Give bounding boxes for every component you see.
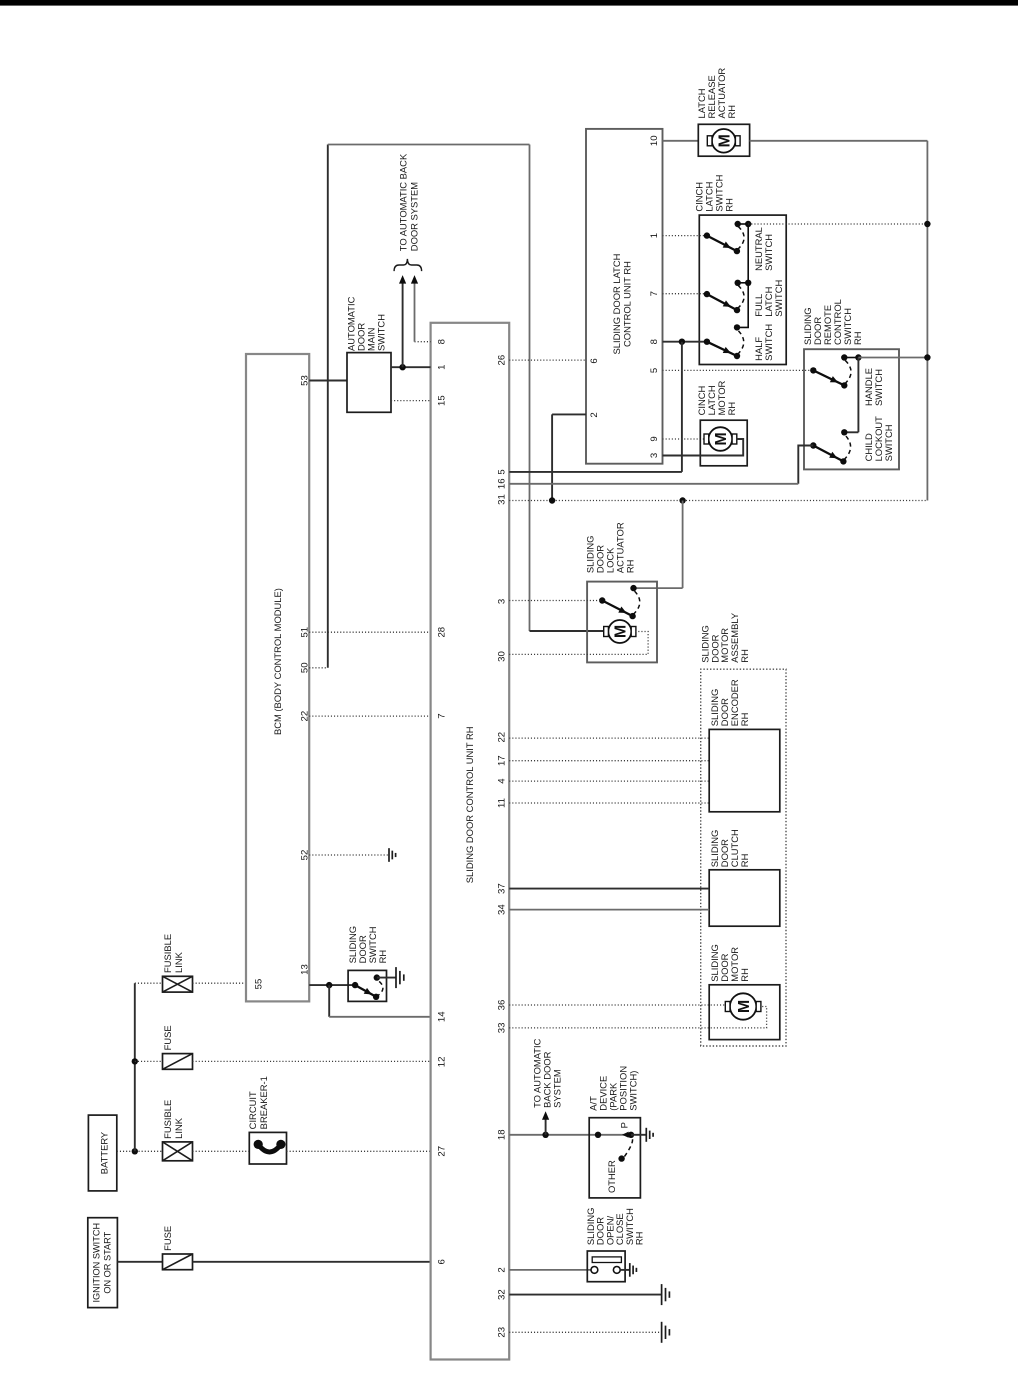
junction to SDLCU 2: [549, 497, 555, 503]
wire switch to SDCU 15: [391, 400, 431, 402]
svg-text:RH: RH: [724, 198, 735, 212]
svg-text:2: 2: [497, 1267, 508, 1272]
wire SDCU 34 to clutch: [509, 909, 709, 911]
svg-text:CIRCUIT: CIRCUIT: [247, 1091, 258, 1129]
sliding door motor RH: [709, 985, 780, 1040]
svg-text:RH: RH: [739, 968, 750, 982]
motor lock actuator: [604, 620, 636, 643]
wire SDLCU 5 to handle switch: [663, 369, 814, 371]
wire power loop top: [327, 145, 329, 668]
ground A/T device: [646, 1128, 653, 1142]
ignition switch: [88, 1218, 118, 1308]
motor sliding door: [725, 993, 761, 1019]
svg-text:SWITCH: SWITCH: [376, 314, 387, 351]
sliding door latch control unit RH: [586, 129, 663, 464]
svg-text:18: 18: [497, 1129, 508, 1140]
wire SDCU 32 to ground: [509, 1294, 661, 1296]
circuit breaker CB-1: [249, 1132, 286, 1164]
svg-text:SYSTEM: SYSTEM: [552, 1069, 563, 1108]
svg-text:13: 13: [300, 964, 311, 975]
svg-text:23: 23: [497, 1327, 508, 1338]
wire neutral switch to return: [748, 223, 927, 225]
svg-text:M: M: [613, 625, 630, 638]
svg-text:SWITCH: SWITCH: [773, 280, 784, 317]
svg-text:27: 27: [437, 1146, 448, 1157]
ground SDCU 23: [662, 1322, 670, 1343]
wire switch pin 1 to SDCU 1: [391, 366, 431, 368]
motor cinch latch: [704, 427, 737, 451]
svg-text:32: 32: [497, 1289, 508, 1300]
arrow to automatic back door system (2): [415, 341, 431, 343]
ground open/close switch: [630, 1263, 637, 1277]
wire BCM 13 to sliding door switch: [309, 984, 355, 986]
wire SDLCU 7 to full latch switch: [663, 293, 707, 295]
svg-text:ON OR START: ON OR START: [103, 1231, 113, 1293]
svg-text:36: 36: [497, 1000, 508, 1011]
wire SDCU 17 to encoder: [509, 760, 709, 762]
svg-text:DOOR SYSTEM: DOOR SYSTEM: [408, 182, 419, 251]
wire BCM 53 to main switch: [309, 380, 347, 382]
svg-text:3: 3: [497, 599, 508, 604]
svg-text:SLIDING DOOR CONTROL UNIT RH: SLIDING DOOR CONTROL UNIT RH: [464, 726, 475, 883]
half switch: [704, 338, 710, 344]
full latch switch: [704, 291, 710, 297]
svg-text:16: 16: [497, 478, 508, 489]
wire junction to lock actuator switch: [682, 501, 684, 589]
svg-text:5: 5: [649, 368, 660, 373]
svg-text:55: 55: [253, 979, 264, 990]
wire SDLCU 3 motor return: [663, 439, 744, 456]
svg-text:7: 7: [437, 713, 448, 718]
svg-text:LINK: LINK: [173, 951, 184, 973]
svg-text:SWITCH): SWITCH): [628, 1071, 639, 1111]
svg-text:RH: RH: [739, 649, 750, 663]
wire SDLCU 8 to half switch: [663, 341, 707, 343]
sliding door clutch RH: [709, 870, 780, 926]
svg-text:8: 8: [649, 339, 660, 344]
svg-text:M: M: [717, 134, 734, 147]
wire to ground: [631, 1134, 646, 1136]
svg-text:RH: RH: [726, 402, 737, 416]
wire actuator return: [750, 140, 928, 142]
svg-text:51: 51: [300, 627, 311, 638]
svg-text:34: 34: [497, 904, 508, 915]
wire BCM 51 to SDCU 28: [309, 631, 430, 633]
svg-text:RH: RH: [377, 950, 388, 964]
svg-text:IGNITION SWITCH: IGNITION SWITCH: [92, 1223, 102, 1303]
automatic door main switch: [347, 353, 391, 413]
svg-text:37: 37: [497, 883, 508, 894]
svg-text:FUSIBLE: FUSIBLE: [162, 1100, 173, 1139]
BCM (body control module): [246, 354, 309, 1001]
svg-text:6: 6: [437, 1259, 448, 1264]
wire SDCU 37 to clutch: [509, 888, 709, 890]
contact: [595, 1132, 601, 1138]
junction battery feed: [132, 1148, 138, 1154]
wire power loop lower: [529, 145, 531, 632]
svg-text:33: 33: [497, 1023, 508, 1034]
wire SDCU 36 to motor: [509, 1004, 726, 1006]
motor latch release actuator: [707, 129, 740, 153]
junction SDLCU 8 branch: [679, 338, 685, 344]
svg-text:BREAKER-1: BREAKER-1: [258, 1076, 269, 1129]
svg-text:OTHER: OTHER: [606, 1160, 617, 1193]
arc sliding door switch: [376, 980, 383, 997]
svg-text:BCM (BODY CONTROL MODULE): BCM (BODY CONTROL MODULE): [272, 588, 283, 735]
svg-text:TO AUTOMATIC BACK: TO AUTOMATIC BACK: [398, 153, 409, 251]
svg-text:50: 50: [300, 662, 311, 673]
wire battery feed: [117, 1150, 163, 1152]
junction arrow branch: [399, 364, 405, 370]
wire to ground: [620, 1269, 630, 1271]
svg-text:RH: RH: [739, 713, 750, 727]
neutral switch: [704, 232, 710, 238]
junction handle switch: [924, 354, 930, 360]
sliding door switch RH: [348, 970, 386, 1001]
wire SDCU 31 to SDLCU 2: [552, 413, 586, 415]
A/T device (park position switch): [589, 1118, 640, 1198]
svg-text:SWITCH: SWITCH: [873, 369, 884, 406]
svg-text:11: 11: [497, 798, 508, 808]
wire fuse to SDCU pin 6: [193, 1261, 431, 1263]
svg-text:22: 22: [300, 711, 311, 722]
wire BCM 52 to ground: [309, 854, 389, 856]
wire BCM 50: [309, 667, 328, 669]
svg-text:RH: RH: [634, 1232, 645, 1246]
svg-text:53: 53: [300, 375, 311, 386]
svg-text:30: 30: [497, 651, 508, 662]
svg-text:SWITCH: SWITCH: [883, 424, 894, 461]
contact sliding door switch: [352, 982, 358, 988]
lever sliding door switch: [355, 985, 376, 997]
svg-text:9: 9: [649, 436, 660, 441]
wire SDCU 2 to open/close switch: [509, 1269, 592, 1271]
wire battery branch: [134, 983, 136, 1151]
svg-text:31: 31: [497, 494, 508, 505]
svg-text:5: 5: [497, 469, 508, 474]
wire SDCU 22 to encoder: [509, 737, 709, 739]
svg-text:7: 7: [649, 291, 660, 296]
svg-text:LINK: LINK: [173, 1117, 184, 1139]
black bar: [0, 0, 1018, 6]
junction neutral switch: [924, 221, 930, 227]
brace: [394, 259, 422, 271]
sliding door motor assembly RH: [701, 669, 786, 1046]
svg-text:26: 26: [497, 355, 508, 366]
svg-text:14: 14: [437, 1011, 448, 1022]
child lockout switch: [810, 442, 816, 448]
svg-text:1: 1: [437, 365, 448, 370]
wire SDCU 26 to SDLCU 6: [509, 359, 586, 361]
wire SDCU 31 bus: [509, 500, 927, 502]
wire BCM 22 to SDCU 7: [309, 715, 430, 717]
svg-text:17: 17: [497, 755, 508, 766]
wire FL2 to circuit breaker: [193, 1150, 250, 1152]
junction BCM 13 branch: [326, 982, 332, 988]
svg-text:SWITCH: SWITCH: [763, 324, 774, 361]
svg-text:10: 10: [649, 135, 660, 146]
svg-text:8: 8: [437, 339, 448, 344]
wire SDCU 3 to lock actuator switch: [509, 600, 602, 602]
svg-text:SWITCH: SWITCH: [763, 234, 774, 271]
wire SDCU 18: [509, 1134, 631, 1136]
svg-text:15: 15: [437, 395, 448, 406]
fusible link FL1 (BCM): [135, 982, 163, 984]
svg-text:M: M: [713, 432, 730, 445]
wire switch to ground: [377, 977, 396, 979]
wire lock motor return to SDCU 30: [635, 632, 648, 655]
ground SDCU 32: [662, 1284, 670, 1305]
wire ignition to fuse: [117, 1261, 162, 1263]
svg-text:FUSIBLE: FUSIBLE: [162, 934, 173, 973]
wire SDLCU 10 to actuator: [663, 140, 699, 142]
wire FL1 to BCM pin 55: [193, 982, 247, 984]
sliding door lock actuator RH: [587, 582, 657, 663]
svg-text:1: 1: [649, 233, 660, 238]
wire SDLCU 1 to neutral switch: [663, 235, 707, 237]
wire SDCU 23 to ground: [509, 1331, 661, 1333]
sliding door encoder RH: [709, 729, 780, 811]
handle switch: [810, 367, 816, 373]
sliding door remote control switch RH: [804, 349, 899, 469]
junction fuse branch: [132, 1058, 138, 1064]
wire SDCU 33 motor return: [509, 1007, 766, 1028]
svg-text:M: M: [736, 1000, 753, 1013]
svg-text:28: 28: [437, 627, 448, 638]
arc A/T switch: [624, 1135, 632, 1157]
arrow to automatic back door system (1): [402, 283, 404, 367]
ground BCM 52: [389, 848, 396, 862]
svg-text:4: 4: [497, 778, 508, 784]
wire SDLCU 9 to motor: [663, 438, 709, 440]
svg-text:FUSE: FUSE: [162, 1226, 173, 1251]
svg-text:3: 3: [649, 453, 660, 458]
svg-text:BATTERY: BATTERY: [99, 1131, 110, 1174]
svg-text:12: 12: [437, 1057, 448, 1068]
battery B1: [88, 1115, 116, 1191]
svg-text:22: 22: [497, 732, 508, 743]
svg-text:RH: RH: [852, 331, 863, 345]
wire loop to lock actuator motor: [530, 630, 605, 632]
svg-text:2: 2: [589, 412, 600, 417]
svg-text:RH: RH: [726, 105, 737, 119]
sliding door control unit RH: [431, 323, 510, 1360]
wire power loop right: [328, 144, 530, 146]
svg-text:6: 6: [589, 358, 600, 363]
contact OTHER: [618, 1155, 624, 1161]
junction to lock actuator: [679, 497, 685, 503]
wire fuse to SDCU pin 12: [193, 1060, 431, 1062]
wire return bus: [926, 141, 928, 501]
svg-text:RH: RH: [739, 854, 750, 868]
arrow to automatic back door system (bottom): [545, 1119, 547, 1134]
fusible link FL2 (battery): [163, 1142, 193, 1161]
svg-text:RH: RH: [625, 560, 636, 574]
wire child lockout to SDCU 16: [798, 446, 813, 484]
chain wires: [737, 283, 748, 328]
ground sliding door switch: [396, 967, 404, 988]
wire handle switch to return: [858, 357, 927, 359]
cinch latch switch RH: [699, 215, 786, 364]
wire SDCU 4 to encoder: [509, 780, 709, 782]
svg-text:CONTROL UNIT RH: CONTROL UNIT RH: [622, 261, 633, 347]
fuse F1: [135, 1060, 163, 1062]
sliding door open/close switch RH: [587, 1251, 625, 1282]
svg-text:52: 52: [300, 850, 311, 861]
junction arrow branch: [542, 1132, 548, 1138]
svg-text:FUSE: FUSE: [162, 1025, 173, 1050]
wire CB to SDCU pin 27: [287, 1150, 431, 1152]
wire branch to SDCU 14: [328, 985, 330, 1017]
contact P: [628, 1132, 634, 1138]
wire branch to SDCU 5: [681, 342, 683, 472]
svg-text:SLIDING DOOR LATCH: SLIDING DOOR LATCH: [611, 254, 622, 355]
wire SDCU 11 to encoder: [509, 802, 709, 804]
svg-text:P: P: [619, 1122, 630, 1128]
